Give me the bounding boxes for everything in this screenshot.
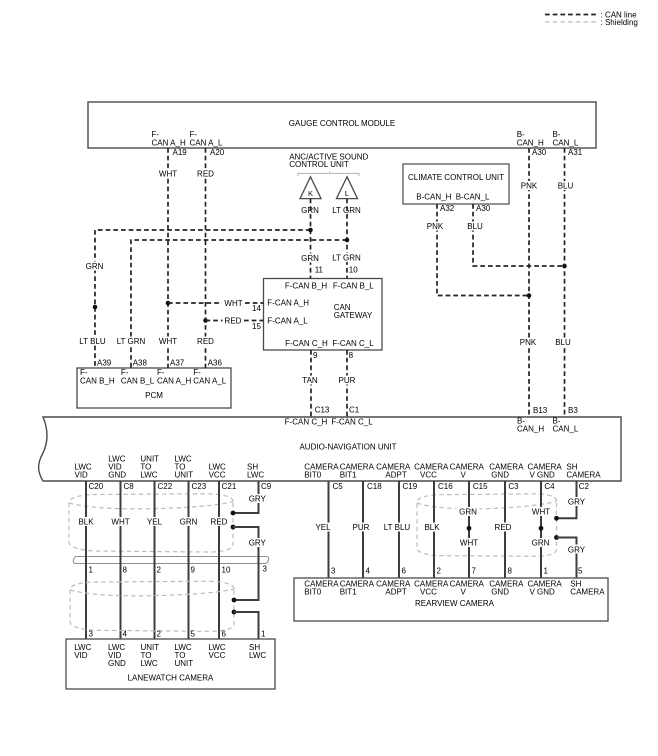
svg-text:WHT: WHT [159,337,177,346]
wire RED (C3 to rearview pin 8) [504,481,506,578]
svg-text:VID: VID [74,651,88,660]
svg-text:VCC: VCC [420,588,437,597]
svg-text:GRY: GRY [568,498,586,507]
svg-text:RED: RED [197,170,214,179]
wire LT BLU (C19 to rearview pin 6) [398,481,400,578]
svg-text:15: 15 [252,322,261,331]
wire GRN/WHT (C15 to rearview pin 7) [468,481,470,578]
svg-text:WHT: WHT [159,170,177,179]
svg-text:A20: A20 [210,148,225,157]
svg-text:BLU: BLU [555,338,571,347]
wire label RED [209,517,230,526]
svg-text:1: 1 [544,567,549,576]
svg-text:L: L [345,189,349,198]
svg-text:B3: B3 [568,406,578,415]
splice (C15 color change) [467,526,472,531]
svg-text:GND: GND [108,659,126,668]
svg-text:GAUGE CONTROL MODULE: GAUGE CONTROL MODULE [289,119,395,128]
junction shield lower [231,525,236,530]
svg-text:F-CAN B_L: F-CAN B_L [333,282,374,291]
svg-text:BLK: BLK [78,517,94,526]
lanewatch pin label LWC TO UNIT [175,643,194,668]
svg-text:LWC: LWC [140,471,157,480]
ANC connector bracket [298,172,359,177]
legend CAN line sample [545,10,637,19]
junction shield lower (right bundle) [554,535,559,540]
svg-text:GND: GND [491,471,509,480]
svg-text:PUR: PUR [353,523,370,532]
svg-text:GRN: GRN [459,508,477,517]
svg-text:1: 1 [261,630,266,639]
wire GRY shield to rearview pin 5 [557,538,577,579]
svg-text:4: 4 [366,567,371,576]
legend Shielding sample [545,18,638,27]
wire label PUR [336,376,358,386]
wires crossing connector bar [86,556,259,564]
svg-text:AUDIO-NAVIGATION UNIT: AUDIO-NAVIGATION UNIT [299,443,396,452]
svg-text:6: 6 [222,630,227,639]
wire A19 WHT F-CAN A_H (gauge to PCM A37) [167,148,169,368]
wire label LT BLU (C19) [383,523,412,533]
climate control unit box [403,164,509,204]
splice (C4 color change) [539,526,544,531]
svg-text:9: 9 [313,351,318,360]
svg-text:: Shielding: : Shielding [601,18,638,27]
svg-text:C23: C23 [192,482,207,491]
shielding oval (right bundle) [417,494,557,557]
svg-text:2: 2 [437,567,442,576]
junction climate BLU on B-CAN_L [562,264,567,269]
svg-text:C3: C3 [508,482,519,491]
svg-text:CAN B_H: CAN B_H [80,376,115,385]
lanewatch pin label LWC VCC [209,643,226,660]
wire RED (C21 to lanewatch) [218,481,220,639]
svg-text:10: 10 [222,566,231,575]
svg-text:CAN_L: CAN_L [553,139,579,148]
svg-text:9: 9 [191,566,196,575]
can gateway box [264,279,383,351]
wire label TAN [299,376,321,386]
wire label GRY (lower) [246,538,269,548]
wire WHT/GRN (C4 to rearview pin 1) [540,481,542,578]
svg-text:A32: A32 [440,204,455,213]
shielding oval (upper left bundle) [69,494,233,552]
gauge pin B-CAN_H label [517,130,544,148]
audio-nav bottom pin label SH CAMERA [566,463,601,480]
svg-text:C18: C18 [367,482,382,491]
junction WHT branch [166,301,171,306]
wire label PUR (C18) [350,523,372,533]
svg-text:LT GRN: LT GRN [117,337,146,346]
wire branch WHT to gateway pin 14 [168,302,264,304]
rearview pin label CAMERA GND [489,580,524,597]
wire label BLK (C16) [421,523,443,533]
wire label WHT (A37) [157,337,179,347]
svg-text:PUR: PUR [339,376,356,385]
svg-text:C22: C22 [158,482,173,491]
svg-text:GRN: GRN [301,254,319,263]
svg-text:A38: A38 [133,359,148,368]
svg-text:3: 3 [263,565,268,574]
wire label WHT (C4 upper) [530,507,553,517]
svg-text:PNK: PNK [520,338,537,347]
svg-text:WHT: WHT [532,508,550,517]
svg-text:7: 7 [472,567,477,576]
svg-text:PNK: PNK [521,182,538,191]
svg-text:LT GRN: LT GRN [332,254,361,263]
svg-text:5: 5 [578,567,583,576]
wire WHT (C8 to lanewatch) [120,481,122,639]
wire L terminal to gateway pin 10 [346,199,348,279]
svg-text:1: 1 [89,566,94,575]
svg-text:GRN: GRN [86,262,104,271]
audio-nav bottom pin label LWC VID [75,463,92,480]
svg-text:F-CAN A_H: F-CAN A_H [267,299,309,308]
lanewatch pin label SH LWC [249,643,266,660]
wire BLK (C20 to lanewatch) [85,481,87,639]
svg-text:14: 14 [252,304,261,313]
audio-nav bottom pin label LWC VCC [209,463,226,480]
svg-text:B-CAN_H: B-CAN_H [416,193,451,202]
svg-text:UNIT: UNIT [175,659,194,668]
svg-text:C9: C9 [261,482,272,491]
wire K terminal to gateway pin 11 [310,199,312,279]
svg-text:C20: C20 [89,482,104,491]
lanewatch pin label LWC VID [74,643,91,660]
svg-text:F-CAN C_H: F-CAN C_H [285,339,328,348]
audio-navigation unit box [39,417,621,481]
wire label WHT [109,517,132,526]
svg-text:F-CAN C_H: F-CAN C_H [285,418,328,427]
svg-text:BLU: BLU [558,182,574,191]
ANC/ACTIVE SOUND CONTROL UNIT label [289,152,368,169]
wire gateway pin 8 PUR to audio-nav C1 [346,350,348,417]
wire label BLK [75,517,97,526]
svg-text:YEL: YEL [315,523,331,532]
svg-text:4: 4 [123,630,128,639]
wire label GRY (upper) [246,494,269,504]
wire label RED (C3) [493,523,514,533]
wire YEL (C5 to rearview pin 3) [328,481,330,578]
wire BLK (C16 to rearview pin 2) [433,481,435,578]
wire GRY shield to lanewatch pin 1 [234,612,259,639]
gauge pin F-CAN A_L label [190,130,223,148]
wire label PNK (climate) [424,222,446,232]
audio-nav bottom pin label CAMERA VCC [414,463,449,480]
svg-text:ADPT: ADPT [385,588,406,597]
rearview pin label CAMERA V GND [528,580,563,597]
svg-text:V: V [461,588,467,597]
wire gateway pin 9 TAN to audio-nav C13 [310,350,312,417]
rearview pin label CAMERA V [450,580,485,597]
svg-text:F-CAN A_L: F-CAN A_L [267,316,308,325]
audio-nav bottom pin label UNIT TO LWC [140,455,159,480]
svg-text:V: V [461,471,467,480]
svg-text:BLK: BLK [424,523,440,532]
svg-text:2: 2 [157,630,162,639]
rearview pin label CAMERA ADPT [376,580,411,597]
wire climate A30 BLU to B-CAN_L [473,204,565,266]
svg-text:BIT1: BIT1 [340,471,357,480]
wire label PNK (upper) [518,181,540,191]
svg-text:CAN_H: CAN_H [517,139,544,148]
wire label GRN (left net) [83,262,106,272]
svg-text:LT BLU: LT BLU [79,337,106,346]
svg-text:RED: RED [211,517,228,526]
svg-text:PNK: PNK [427,222,444,231]
svg-text:A30: A30 [476,204,491,213]
lanewatch pin label UNIT TO LWC [141,643,160,668]
svg-text:GRY: GRY [249,539,267,548]
svg-text:6: 6 [402,567,407,576]
svg-text:F-CAN C_L: F-CAN C_L [332,339,374,348]
svg-text:LWC: LWC [141,659,158,668]
audio-nav top pin label B-CAN_L [553,417,579,434]
inline connector bar (lanewatch harness) [73,557,268,564]
svg-text:CAMERA: CAMERA [566,471,601,480]
svg-text:8: 8 [123,566,128,575]
wire climate A32 PNK to B-CAN_H [437,204,529,296]
svg-text:CAN A_H: CAN A_H [157,376,191,385]
svg-text:CLIMATE CONTROL UNIT: CLIMATE CONTROL UNIT [408,173,504,182]
wire GRY shield drain C2 [557,481,577,518]
wire branch RED to gateway pin 15 [206,320,264,322]
audio-nav bottom pin label SH LWC [247,463,264,480]
wire label PNK (lower) [517,338,539,348]
svg-text:VCC: VCC [420,471,437,480]
audio-nav top pin label B-CAN_H [517,417,544,434]
wire PUR (C18 to rearview pin 4) [362,481,364,578]
junction shield upper (right bundle) [554,516,559,521]
junction on L wire [345,238,350,243]
wire label WHT (A19) [157,169,179,179]
gauge control module box [88,102,596,148]
gauge pin F-CAN A_H label [152,130,186,148]
wire GRN/LT BLU (net to PCM A39) [95,230,311,368]
svg-text:CAN A_H: CAN A_H [152,139,186,148]
svg-text:11: 11 [315,266,324,275]
svg-text:C15: C15 [473,482,488,491]
audio-nav bottom pin label CAMERA ADPT [376,463,411,480]
svg-text:A31: A31 [568,148,583,157]
wire label YEL [144,517,165,526]
svg-text:CAMERA: CAMERA [450,463,485,472]
wire label BLU (climate) [465,222,486,232]
svg-text:VCC: VCC [209,471,226,480]
svg-text:A30: A30 [532,148,547,157]
svg-text:A36: A36 [208,359,223,368]
wire label GRY (C2 upper) [565,497,588,507]
svg-text:WHT: WHT [460,539,478,548]
terminal K (ANC) [300,177,321,199]
wire LT GRN (net to PCM A38) [131,240,347,368]
svg-text:A39: A39 [97,359,112,368]
svg-text:GND: GND [491,588,509,597]
svg-text:C13: C13 [315,406,330,415]
wire label BLU (lower) [553,338,574,348]
svg-text:CAN B_L: CAN B_L [121,376,155,385]
gauge pin B-CAN_L label [553,130,579,148]
wire label LT BLU [78,337,107,347]
wire GRN (C23 to lanewatch) [188,481,190,639]
svg-text:TAN: TAN [302,376,318,385]
svg-text:3: 3 [331,567,336,576]
svg-text:A37: A37 [170,359,185,368]
lanewatch pin label LWC VID GND [108,643,126,668]
wire YEL (C22 to lanewatch) [154,481,156,639]
wire label WHT (branch) [222,299,245,309]
svg-text:VCC: VCC [209,651,226,660]
audio-nav bottom pin label CAMERA BIT0 [304,463,339,480]
svg-text:RED: RED [495,523,512,532]
svg-text:LT BLU: LT BLU [384,523,411,532]
svg-text:F-CAN B_H: F-CAN B_H [285,282,327,291]
junction shield upper [231,511,236,516]
rearview pin label CAMERA VCC [414,580,449,597]
svg-text:2: 2 [157,566,162,575]
shielding oval (lower left bundle) [70,581,234,631]
wire label GRN [177,517,200,526]
wire label RED (A36) [195,337,216,347]
svg-text:YEL: YEL [147,517,163,526]
svg-text:CAN_L: CAN_L [553,425,579,434]
svg-text:WHT: WHT [111,517,129,526]
audio-nav bottom pin label CAMERA V [450,463,485,480]
svg-text:BLU: BLU [467,222,483,231]
svg-text:GND: GND [108,471,126,480]
audio-nav bottom pin label LWC TO UNIT [175,455,194,480]
svg-text:V GND: V GND [530,471,556,480]
svg-text:GRN: GRN [532,539,550,548]
svg-text:PCM: PCM [145,391,163,400]
splice (color change GRN to LT BLU) [93,305,98,310]
svg-text:C19: C19 [403,482,418,491]
wire label BLU (upper) [555,181,576,191]
svg-text:GRY: GRY [249,495,267,504]
svg-text:C1: C1 [349,406,360,415]
svg-text:CAN A_L: CAN A_L [193,376,226,385]
svg-text:GATEWAY: GATEWAY [334,311,373,320]
junction on K wire [308,228,313,233]
svg-text:ADPT: ADPT [385,471,406,480]
wire label LT GRN [116,337,147,347]
svg-text:BIT0: BIT0 [304,588,321,597]
wire B-CAN_H PNK (gauge A30 to audio-nav B13) [528,148,530,417]
svg-text:CAN_H: CAN_H [517,425,544,434]
svg-text:RED: RED [225,317,242,326]
wire label GRY (C2 lower) [565,545,588,555]
svg-text:C21: C21 [222,482,237,491]
audio-nav bottom pin label CAMERA GND [489,463,524,480]
svg-text:F-CAN C_L: F-CAN C_L [331,418,373,427]
svg-text:C8: C8 [124,482,135,491]
wire B-CAN_L BLU (gauge A31 to audio-nav B3) [564,148,566,417]
wire label GRN (C4 lower) [529,538,552,548]
junction RED branch [203,318,208,323]
svg-text:A19: A19 [173,148,188,157]
svg-text:LWC: LWC [249,651,266,660]
rearview pin label SH CAMERA [570,580,605,597]
svg-text:K: K [308,189,313,198]
svg-text:GRY: GRY [568,545,586,554]
svg-text:5: 5 [191,630,196,639]
svg-text:3: 3 [89,630,94,639]
svg-text:BIT1: BIT1 [340,588,357,597]
svg-text:GRN: GRN [180,517,198,526]
svg-text:CAMERA: CAMERA [570,588,605,597]
junction climate PNK on B-CAN_H [527,293,532,298]
svg-text:LWC: LWC [247,471,264,480]
wire label GRN (pin 11) [299,254,322,264]
svg-text:REARVIEW CAMERA: REARVIEW CAMERA [415,599,495,608]
pcm box [77,368,231,408]
rearview pin label CAMERA BIT1 [340,580,375,597]
audio-nav bottom pin label CAMERA V GND [528,463,563,480]
svg-text:BIT0: BIT0 [304,471,321,480]
wire label RED (branch) [223,316,244,326]
svg-text:8: 8 [349,351,354,360]
svg-text:B13: B13 [533,406,548,415]
svg-text:C4: C4 [544,482,555,491]
wire label RED (A20) [195,169,216,179]
svg-text:LANEWATCH CAMERA: LANEWATCH CAMERA [128,674,214,683]
junction shield upper (lower bundle) [232,598,237,603]
lanewatch camera box [66,639,275,689]
wire label YEL (C5) [313,523,334,533]
wire label WHT (C15 lower) [458,538,481,548]
wire GRY shield to connector pin 3 [233,527,259,557]
rearview camera box [294,578,608,621]
svg-text:8: 8 [508,567,513,576]
svg-text:WHT: WHT [224,299,242,308]
svg-text:C2: C2 [579,482,590,491]
audio-nav bottom pin label CAMERA BIT1 [340,463,375,480]
junction shield lower (lower bundle) [232,610,237,615]
audio-nav bottom pin label LWC VID GND [108,455,126,480]
wire label GRN (C15 upper) [457,507,480,517]
svg-text:CONTROL UNIT: CONTROL UNIT [289,160,349,169]
svg-text:C5: C5 [333,482,344,491]
rearview pin label CAMERA BIT0 [304,580,339,597]
wire A20 RED F-CAN A_L (gauge to PCM A36) [205,148,207,368]
svg-text:10: 10 [349,266,358,275]
svg-text:V GND: V GND [530,588,556,597]
svg-text:CAMERA: CAMERA [450,580,485,589]
wire GRY shield drain C9 [233,481,259,513]
wire label LT GRN (pin 10) [331,253,362,263]
terminal L (ANC) [337,177,358,199]
svg-text:CAN A_L: CAN A_L [190,139,223,148]
svg-text:UNIT: UNIT [175,471,194,480]
wire GRY connector pin 3 to shield [234,564,259,601]
svg-text:C16: C16 [438,482,453,491]
svg-text:RED: RED [197,337,214,346]
svg-text:VID: VID [75,471,89,480]
svg-text:B-CAN_L: B-CAN_L [456,193,490,202]
